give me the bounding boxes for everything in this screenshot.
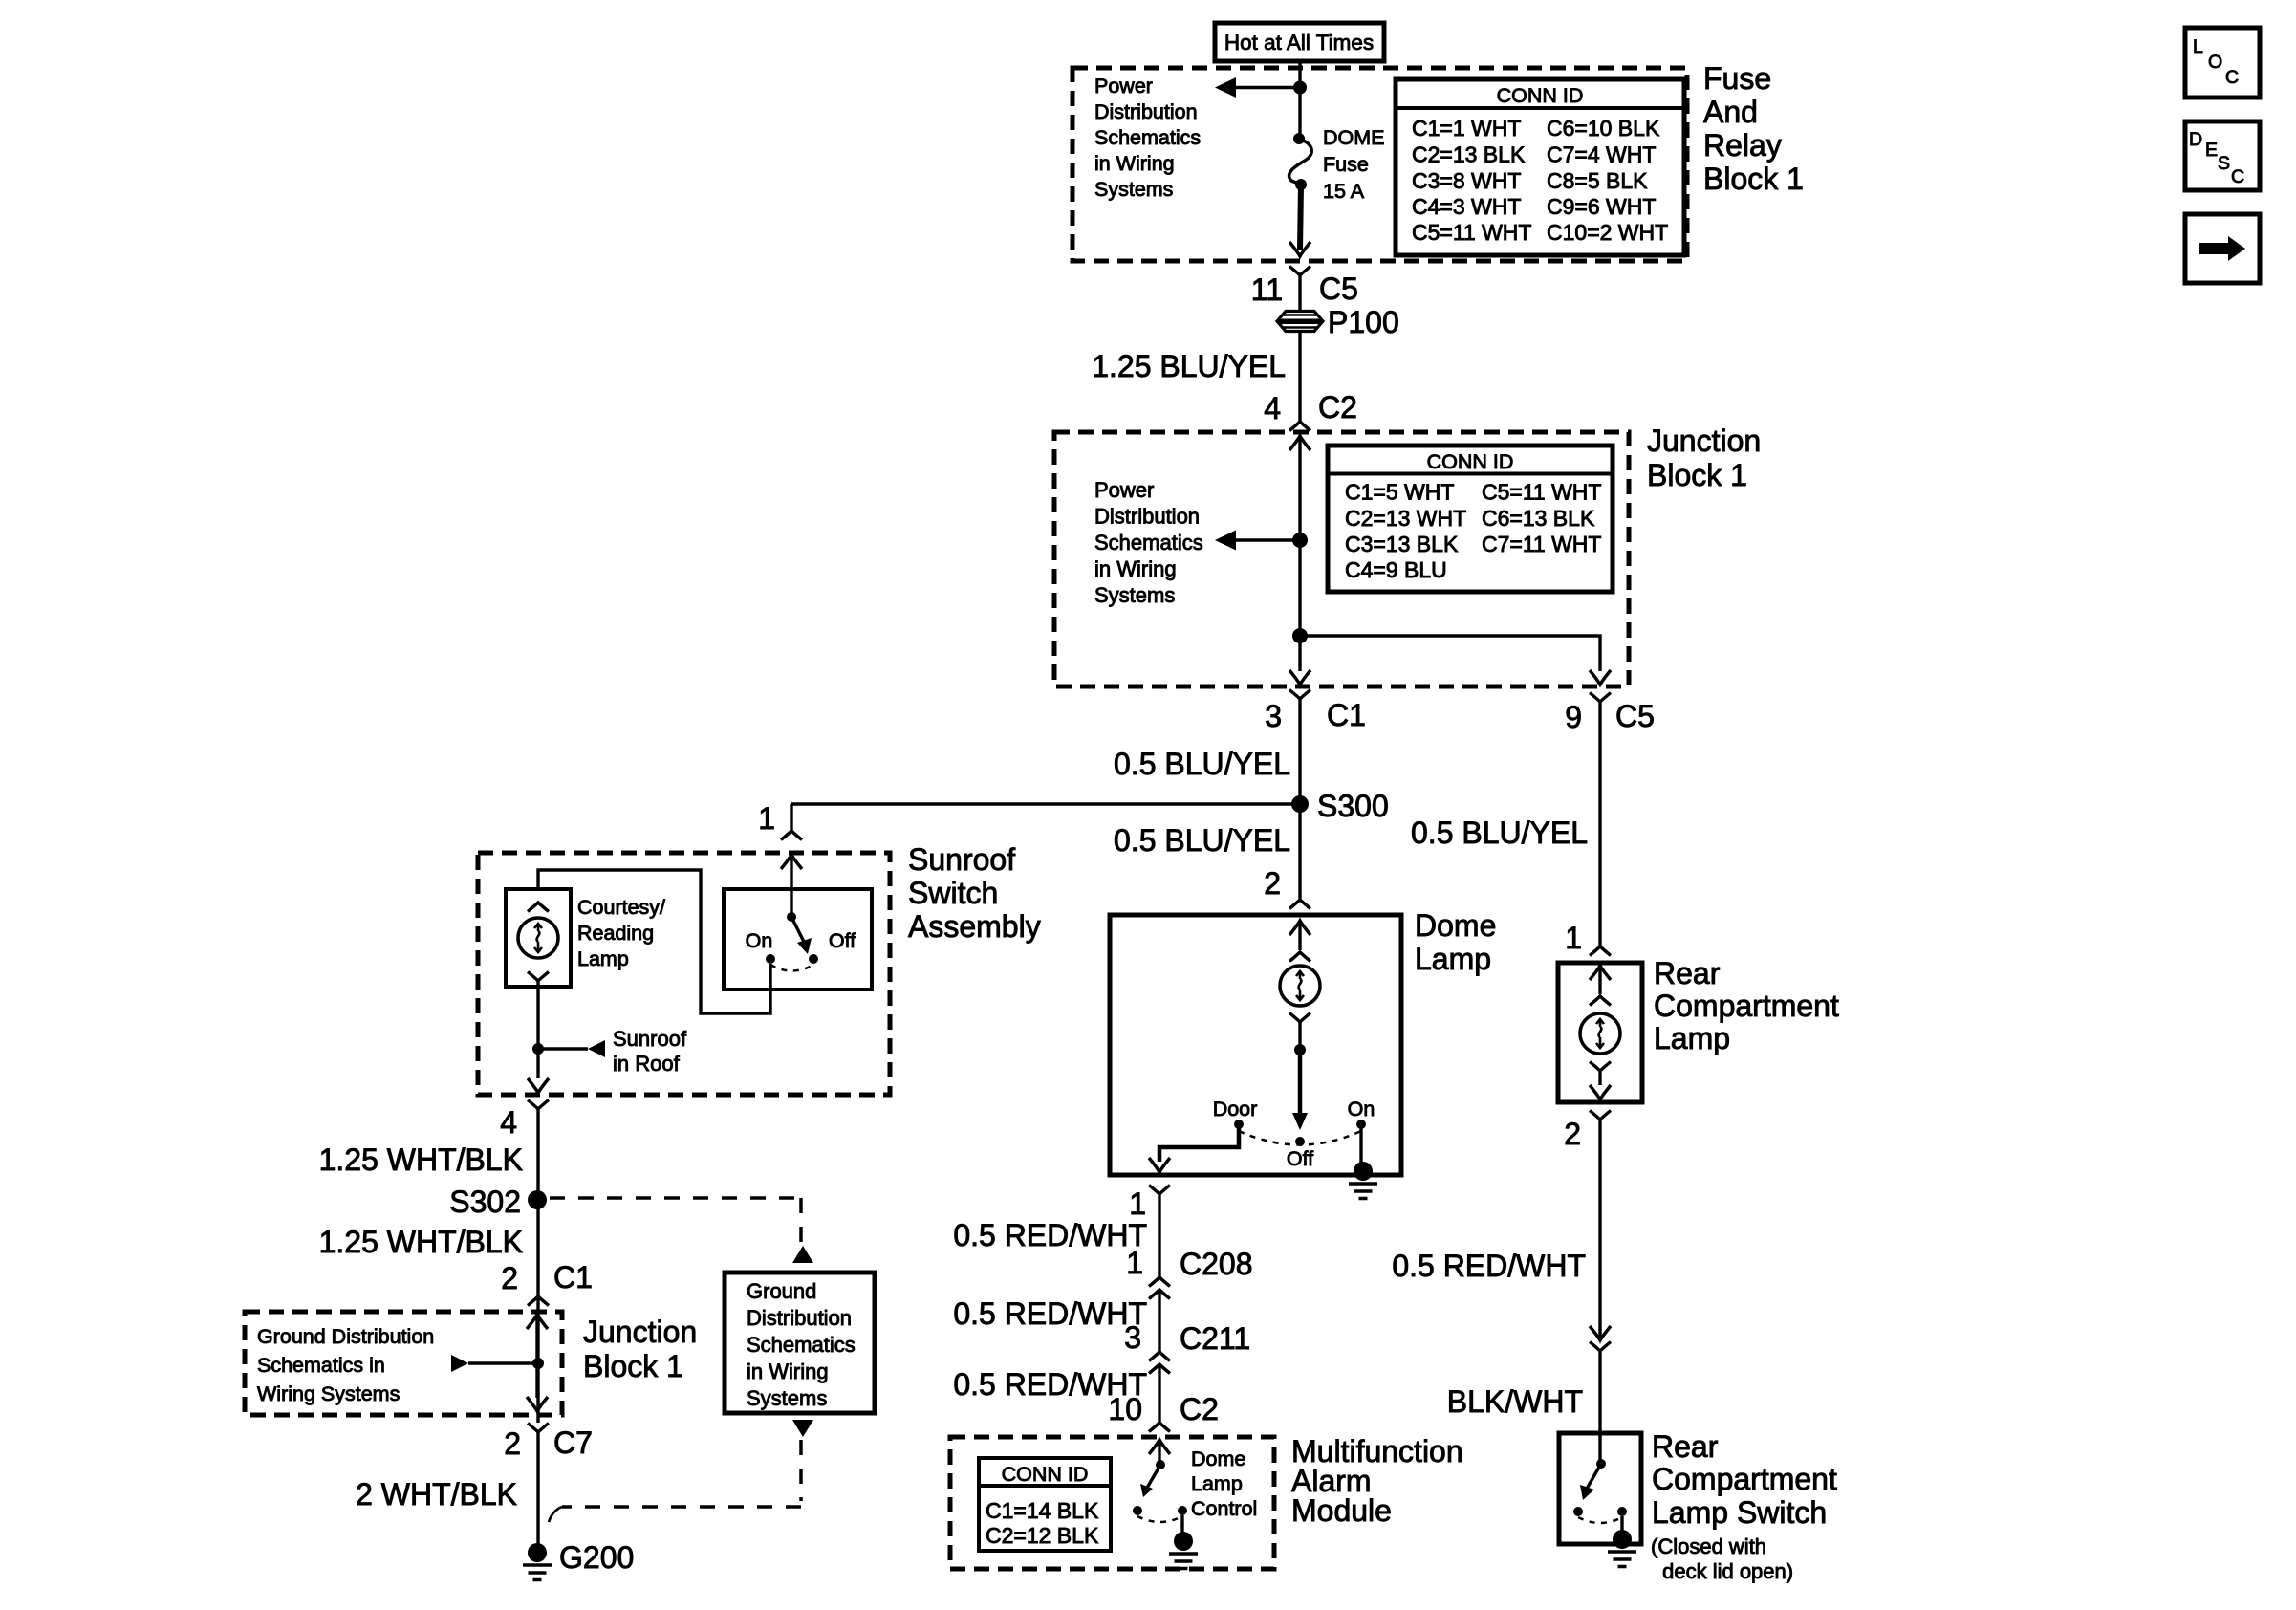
svg-text:C3=13 BLK: C3=13 BLK	[1345, 532, 1459, 556]
svg-text:C6=10 BLK: C6=10 BLK	[1547, 116, 1660, 141]
svg-text:C211: C211	[1180, 1321, 1250, 1356]
svg-text:Schematics: Schematics	[1094, 531, 1203, 555]
svg-text:0.5 BLU/YEL: 0.5 BLU/YEL	[1114, 823, 1290, 858]
svg-text:1: 1	[1126, 1246, 1143, 1280]
svg-text:0.5 BLU/YEL: 0.5 BLU/YEL	[1411, 816, 1588, 850]
svg-text:Schematics: Schematics	[1094, 126, 1201, 149]
svg-text:2 WHT/BLK: 2 WHT/BLK	[356, 1477, 517, 1512]
svg-text:On: On	[1348, 1098, 1375, 1120]
svg-text:2: 2	[1264, 866, 1281, 901]
svg-text:Off: Off	[1287, 1147, 1313, 1170]
svg-text:1.25 WHT/BLK: 1.25 WHT/BLK	[319, 1142, 523, 1177]
svg-text:C3=8 WHT: C3=8 WHT	[1412, 168, 1521, 193]
svg-text:Switch: Switch	[908, 876, 998, 910]
svg-text:Block 1: Block 1	[1703, 162, 1804, 196]
svg-text:Lamp: Lamp	[1415, 942, 1491, 976]
svg-text:3: 3	[1124, 1320, 1141, 1355]
svg-text:C4=9 BLU: C4=9 BLU	[1345, 557, 1447, 582]
svg-text:in Wiring: in Wiring	[747, 1360, 829, 1383]
svg-text:Rear: Rear	[1654, 956, 1721, 990]
svg-text:S302: S302	[449, 1185, 521, 1219]
svg-text:C5=11 WHT: C5=11 WHT	[1412, 220, 1531, 245]
svg-text:BLK/WHT: BLK/WHT	[1447, 1384, 1583, 1419]
svg-text:Sunroof: Sunroof	[613, 1027, 687, 1051]
svg-text:C6=13 BLK: C6=13 BLK	[1482, 506, 1595, 531]
svg-text:Fuse: Fuse	[1323, 153, 1369, 176]
svg-text:E: E	[2205, 140, 2218, 161]
svg-text:Dome: Dome	[1191, 1447, 1245, 1470]
svg-text:in Wiring: in Wiring	[1094, 557, 1177, 581]
svg-text:Junction: Junction	[1647, 424, 1761, 458]
svg-text:Control: Control	[1191, 1497, 1257, 1520]
svg-text:C2: C2	[1318, 390, 1357, 424]
svg-text:Ground Distribution: Ground Distribution	[257, 1325, 434, 1348]
svg-text:L: L	[2193, 36, 2203, 57]
svg-text:G200: G200	[559, 1540, 634, 1575]
svg-text:1.25 WHT/BLK: 1.25 WHT/BLK	[319, 1225, 523, 1259]
svg-text:Reading: Reading	[577, 922, 654, 945]
svg-text:C7: C7	[553, 1425, 593, 1460]
svg-text:DOME: DOME	[1323, 126, 1385, 149]
svg-text:Wiring Systems: Wiring Systems	[257, 1382, 400, 1405]
svg-text:Distribution: Distribution	[747, 1306, 852, 1330]
svg-text:C1=14 BLK: C1=14 BLK	[986, 1498, 1099, 1523]
svg-text:D: D	[2189, 129, 2202, 150]
svg-text:O: O	[2208, 52, 2222, 73]
svg-text:CONN ID: CONN ID	[1497, 84, 1584, 107]
svg-text:Relay: Relay	[1703, 128, 1782, 163]
svg-text:Distribution: Distribution	[1094, 505, 1200, 529]
svg-text:Ground: Ground	[747, 1279, 816, 1303]
svg-text:0.5 RED/WHT: 0.5 RED/WHT	[1392, 1249, 1586, 1283]
svg-text:Schematics in: Schematics in	[257, 1354, 385, 1377]
svg-text:C2: C2	[1180, 1392, 1219, 1426]
svg-text:C9=6 WHT: C9=6 WHT	[1547, 194, 1656, 219]
svg-text:C7=11 WHT: C7=11 WHT	[1482, 532, 1601, 556]
svg-text:Door: Door	[1213, 1098, 1258, 1120]
svg-text:2: 2	[501, 1261, 518, 1295]
svg-text:15 A: 15 A	[1323, 180, 1365, 203]
svg-text:1.25 BLU/YEL: 1.25 BLU/YEL	[1092, 349, 1286, 383]
svg-text:C1=5 WHT: C1=5 WHT	[1345, 480, 1454, 505]
svg-text:C: C	[2225, 67, 2239, 88]
svg-text:2: 2	[504, 1426, 521, 1461]
svg-text:C2=13 WHT: C2=13 WHT	[1345, 506, 1466, 531]
svg-text:C10=2 WHT: C10=2 WHT	[1547, 220, 1668, 245]
svg-text:Block 1: Block 1	[1647, 458, 1747, 492]
svg-text:10: 10	[1108, 1392, 1142, 1426]
svg-text:1: 1	[1129, 1186, 1146, 1221]
svg-text:Courtesy/: Courtesy/	[577, 896, 665, 919]
svg-text:CONN ID: CONN ID	[1002, 1463, 1089, 1486]
svg-text:4: 4	[500, 1105, 517, 1140]
svg-text:C2=13 BLK: C2=13 BLK	[1412, 142, 1526, 167]
svg-text:Power: Power	[1094, 75, 1153, 98]
svg-text:Lamp Switch: Lamp Switch	[1652, 1495, 1827, 1530]
svg-text:Sunroof: Sunroof	[908, 842, 1015, 877]
svg-text:On: On	[746, 929, 773, 952]
svg-text:1: 1	[1565, 921, 1582, 955]
svg-text:9: 9	[1565, 700, 1582, 734]
svg-text:Rear: Rear	[1652, 1429, 1719, 1464]
svg-text:Fuse: Fuse	[1703, 61, 1771, 96]
svg-text:C5: C5	[1319, 272, 1358, 306]
svg-text:Lamp: Lamp	[577, 947, 629, 970]
svg-text:C8=5 BLK: C8=5 BLK	[1547, 168, 1648, 193]
svg-text:S: S	[2218, 153, 2230, 174]
svg-text:Lamp: Lamp	[1191, 1472, 1243, 1495]
svg-text:in Wiring: in Wiring	[1094, 152, 1175, 175]
svg-text:Junction: Junction	[583, 1315, 697, 1349]
svg-text:Systems: Systems	[747, 1386, 827, 1410]
svg-text:C5: C5	[1615, 699, 1655, 733]
svg-text:Compartment: Compartment	[1654, 989, 1839, 1023]
svg-text:C2=12 BLK: C2=12 BLK	[986, 1523, 1099, 1548]
svg-text:C1: C1	[553, 1260, 593, 1295]
svg-text:Hot at All Times: Hot at All Times	[1224, 31, 1374, 54]
svg-text:C1: C1	[1327, 698, 1366, 732]
svg-text:P100: P100	[1328, 305, 1399, 339]
svg-text:0.5 RED/WHT: 0.5 RED/WHT	[953, 1218, 1147, 1252]
svg-text:And: And	[1703, 95, 1758, 129]
svg-text:11: 11	[1251, 272, 1283, 307]
svg-text:Module: Module	[1291, 1493, 1392, 1528]
svg-text:S300: S300	[1317, 789, 1389, 823]
svg-text:Systems: Systems	[1094, 583, 1175, 607]
svg-text:C7=4 WHT: C7=4 WHT	[1547, 142, 1656, 167]
svg-text:Power: Power	[1094, 478, 1154, 502]
svg-text:1: 1	[758, 801, 775, 836]
svg-text:Schematics: Schematics	[747, 1333, 856, 1357]
svg-text:CONN ID: CONN ID	[1427, 450, 1514, 473]
svg-text:Dome: Dome	[1415, 908, 1496, 943]
svg-text:Assembly: Assembly	[908, 909, 1041, 944]
svg-text:in Roof: in Roof	[613, 1052, 681, 1076]
svg-text:0.5 RED/WHT: 0.5 RED/WHT	[953, 1296, 1147, 1331]
svg-text:0.5 BLU/YEL: 0.5 BLU/YEL	[1114, 747, 1290, 781]
svg-text:Distribution: Distribution	[1094, 100, 1198, 123]
svg-text:Compartment: Compartment	[1652, 1462, 1837, 1496]
svg-text:Block 1: Block 1	[583, 1349, 683, 1383]
svg-text:deck lid open): deck lid open)	[1657, 1559, 1793, 1583]
svg-text:(Closed with: (Closed with	[1651, 1534, 1766, 1558]
svg-text:4: 4	[1264, 391, 1281, 425]
svg-text:C208: C208	[1180, 1247, 1253, 1281]
svg-text:Off: Off	[829, 929, 856, 952]
svg-text:C: C	[2231, 166, 2244, 187]
svg-text:Systems: Systems	[1094, 178, 1173, 201]
svg-text:C5=11 WHT: C5=11 WHT	[1482, 480, 1601, 505]
svg-text:Lamp: Lamp	[1654, 1021, 1730, 1055]
svg-text:3: 3	[1265, 699, 1282, 733]
svg-text:C1=1 WHT: C1=1 WHT	[1412, 116, 1521, 141]
svg-text:C4=3 WHT: C4=3 WHT	[1412, 194, 1521, 219]
svg-text:2: 2	[1564, 1117, 1581, 1151]
